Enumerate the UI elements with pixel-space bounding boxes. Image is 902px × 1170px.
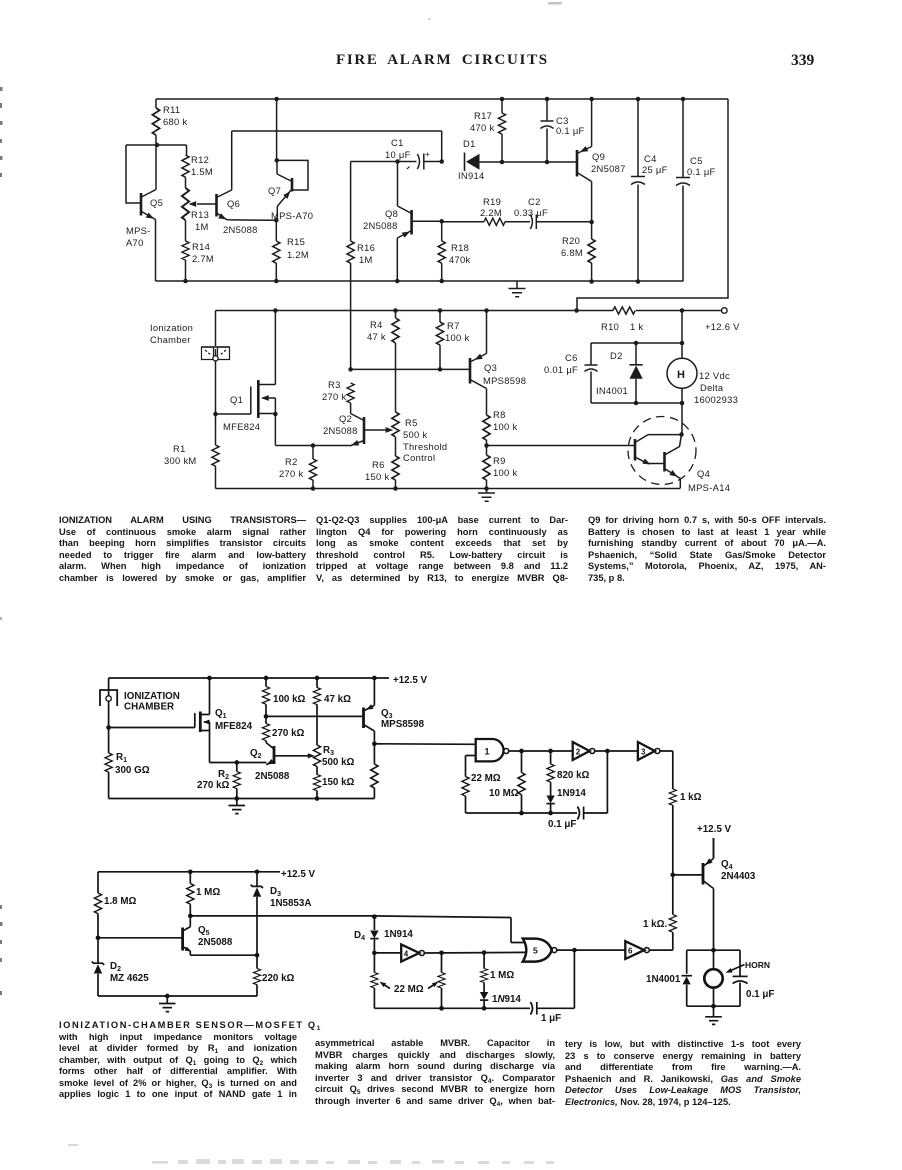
- wire Q1 source to Q2 emitter line: [275, 414, 349, 446]
- caption 1 column 1: [59, 515, 306, 584]
- svg-text:R19: R19: [483, 196, 501, 207]
- resistor R6: [392, 456, 399, 480]
- svg-text:C4: C4: [644, 153, 657, 164]
- svg-text:1M: 1M: [195, 221, 209, 232]
- svg-text:2N4403: 2N4403: [721, 871, 756, 882]
- NOR gate 5: [523, 939, 552, 962]
- resistor R2: [312, 446, 314, 460]
- darlington Q4 dashed circle: [628, 417, 696, 485]
- resistor R3: [347, 383, 354, 403]
- wire NAND output row: [509, 750, 573, 752]
- scan smudges bottom: [152, 1159, 554, 1164]
- MOSFET Q1: [216, 387, 251, 415]
- transistor Q2: [273, 746, 276, 764]
- wire bottom rail left section: [109, 798, 375, 800]
- wire Q4 base: [673, 874, 703, 876]
- svg-text:R5: R5: [405, 417, 418, 428]
- svg-text:Chamber: Chamber: [150, 334, 191, 345]
- svg-text:680 k: 680 k: [163, 116, 187, 127]
- svg-text:Q5: Q5: [198, 925, 210, 937]
- wire divider node to Q3 base: [266, 715, 364, 717]
- wire +12.6V supply line: [216, 310, 722, 312]
- svg-text:10 μF: 10 μF: [385, 149, 411, 160]
- svg-text:1 MΩ: 1 MΩ: [490, 970, 514, 981]
- wire comparator rail +12.5: [98, 871, 280, 873]
- svg-text:16002933: 16002933: [694, 394, 738, 405]
- svg-text:0.1 μF: 0.1 μF: [746, 989, 774, 1000]
- wire +12.5V to Q4 emitter: [713, 838, 715, 859]
- wire top rail: [156, 99, 728, 311]
- wire Q3/R8 node to Q4 base: [487, 445, 636, 447]
- svg-text:R4: R4: [370, 319, 383, 330]
- resistor R4: [395, 311, 397, 319]
- resistor R12: [186, 145, 188, 155]
- svg-text:0.1 μF: 0.1 μF: [548, 819, 576, 830]
- capacitor 0.1uF: [577, 807, 579, 820]
- svg-text:270 k: 270 k: [279, 468, 303, 479]
- svg-text:5: 5: [533, 946, 538, 956]
- transistor Q4 2N4403: [702, 863, 705, 885]
- ionization chamber 2: [100, 690, 117, 706]
- svg-text:Q2: Q2: [339, 413, 352, 424]
- wire threshold node to Q3 base: [351, 368, 470, 370]
- svg-text:10 MΩ: 10 MΩ: [489, 788, 519, 799]
- wire lower bottom rail: [216, 488, 681, 490]
- svg-text:A70: A70: [126, 237, 144, 248]
- svg-text:47 k: 47 k: [367, 331, 386, 342]
- inverter 3: [638, 742, 655, 760]
- svg-text:R11: R11: [163, 104, 180, 115]
- svg-text:100 k: 100 k: [445, 332, 469, 343]
- svg-text:D2: D2: [110, 961, 121, 973]
- arrow HORN label: [729, 965, 745, 972]
- svg-text:2N5088: 2N5088: [223, 224, 258, 235]
- inverter 6: [625, 941, 644, 959]
- resistor below Q3: [373, 744, 375, 764]
- svg-text:D4: D4: [354, 930, 365, 942]
- transistor Q7: [291, 178, 294, 192]
- MOSFET Q1: [109, 713, 195, 728]
- NAND input B feedback: [466, 756, 476, 777]
- capacitor C3: [541, 99, 554, 162]
- svg-text:270 kΩ: 270 kΩ: [272, 728, 305, 739]
- svg-text:R15: R15: [287, 236, 305, 247]
- wire C6/D2 bottom: [591, 402, 682, 404]
- resistor R7: [439, 311, 441, 323]
- wire horn feed from +12.6V: [681, 311, 683, 359]
- svg-text:2N5088: 2N5088: [323, 425, 358, 436]
- svg-text:22 MΩ: 22 MΩ: [394, 984, 424, 995]
- svg-text:1: 1: [485, 747, 490, 757]
- resistor 270k: [265, 716, 267, 723]
- svg-text:R14: R14: [192, 241, 210, 252]
- svg-text:300 GΩ: 300 GΩ: [115, 765, 150, 776]
- resistor R15: [275, 220, 277, 241]
- svg-text:0.1 μF: 0.1 μF: [556, 125, 585, 136]
- svg-text:2N5088: 2N5088: [255, 771, 290, 782]
- resistor 10M: [521, 751, 523, 773]
- resistor R20: [591, 222, 593, 239]
- svg-text:1N914: 1N914: [557, 788, 586, 799]
- transistor Q4b: [663, 452, 666, 472]
- wire Q8 base to R18 node: [412, 220, 442, 222]
- svg-text:Q1: Q1: [230, 394, 243, 405]
- svg-text:R12: R12: [191, 154, 209, 165]
- svg-text:MPS-: MPS-: [126, 225, 151, 236]
- svg-text:4: 4: [404, 950, 409, 959]
- svg-text:R10: R10: [601, 321, 619, 332]
- svg-text:100 k: 100 k: [493, 421, 517, 432]
- caption 2 column 2: [315, 1038, 555, 1107]
- svg-text:MPS-A14: MPS-A14: [688, 482, 730, 493]
- resistor R10: [613, 307, 635, 314]
- svg-text:R1: R1: [173, 443, 186, 454]
- svg-text:+12.5 V: +12.5 V: [697, 824, 732, 835]
- wire MVBR1 bottom: [466, 812, 578, 814]
- svg-text:Q6: Q6: [227, 198, 240, 209]
- wire Q3 collector to NAND 1: [374, 743, 475, 746]
- caption 2 column 3: [565, 1039, 801, 1108]
- wiper arrow Q2 base to R5: [364, 429, 387, 431]
- svg-text:CHAMBER: CHAMBER: [124, 702, 174, 713]
- transistor Q9: [576, 150, 579, 177]
- svg-text:470k: 470k: [449, 254, 471, 265]
- svg-text:R9: R9: [493, 455, 506, 466]
- svg-text:Q7: Q7: [268, 185, 281, 196]
- capacitor C2: [505, 221, 530, 223]
- svg-text:47 kΩ: 47 kΩ: [324, 694, 351, 705]
- svg-text:1 μF: 1 μF: [541, 1013, 561, 1024]
- svg-text:300 kM: 300 kM: [164, 455, 197, 466]
- svg-text:2N5087: 2N5087: [591, 163, 626, 174]
- ionization chamber symbol: [202, 347, 230, 360]
- svg-text:Threshold: Threshold: [403, 441, 447, 452]
- resistor 1k lower: [669, 915, 676, 933]
- svg-text:1.2M: 1.2M: [287, 249, 309, 260]
- svg-text:R7: R7: [447, 320, 460, 331]
- svg-text:150 k: 150 k: [365, 471, 389, 482]
- svg-text:2N5088: 2N5088: [363, 220, 398, 231]
- wiper arrow Q2 base to R3: [274, 755, 308, 757]
- ground below R2: [229, 799, 246, 814]
- svg-text:1N914: 1N914: [492, 994, 521, 1005]
- ground below horn: [705, 1006, 722, 1024]
- svg-text:+12.5 V: +12.5 V: [393, 675, 428, 686]
- svg-text:R8: R8: [493, 409, 506, 420]
- transistor Q3: [362, 708, 365, 729]
- svg-text:1 k: 1 k: [630, 321, 643, 332]
- zener D2 MZ4625: [97, 938, 99, 963]
- diode 1N914 MVBR1: [546, 796, 554, 804]
- resistor R1: [215, 414, 217, 445]
- capacitor 0.1uF horn: [733, 975, 748, 977]
- svg-text:D1: D1: [463, 138, 476, 149]
- resistor R11: [155, 99, 157, 108]
- wiper arrow from Q6 base to R13: [197, 203, 217, 205]
- transistor Q5: [140, 193, 143, 216]
- page header title: [336, 52, 549, 69]
- scan marks left edge: [0, 87, 3, 91]
- svg-text:1 kΩ.: 1 kΩ.: [643, 919, 667, 930]
- svg-text:R6: R6: [372, 459, 385, 470]
- svg-text:R20: R20: [562, 235, 580, 246]
- inverter 2: [573, 742, 590, 760]
- svg-text:MPS8598: MPS8598: [483, 375, 526, 386]
- svg-text:C6: C6: [565, 352, 578, 363]
- svg-text:R2: R2: [285, 456, 298, 467]
- arrow to right 22M: [428, 983, 437, 989]
- svg-text:1 MΩ: 1 MΩ: [196, 887, 220, 898]
- svg-text:+12.5 V: +12.5 V: [281, 869, 316, 880]
- transistor Q2: [363, 417, 366, 444]
- svg-text:150 kΩ: 150 kΩ: [322, 777, 355, 788]
- resistor R16: [350, 162, 352, 242]
- wire supply to ionization chamber: [215, 311, 217, 347]
- svg-text:+: +: [425, 150, 430, 159]
- diode D4 1N914: [373, 917, 375, 930]
- resistor R1: [108, 728, 110, 754]
- svg-text:0.01 μF: 0.01 μF: [544, 364, 578, 375]
- svg-text:1.5M: 1.5M: [191, 166, 213, 177]
- svg-text:2N5088: 2N5088: [198, 937, 233, 948]
- svg-text:MPS8598: MPS8598: [381, 719, 425, 730]
- svg-text:HORN: HORN: [745, 960, 770, 970]
- resistor 1M comparator: [189, 872, 191, 884]
- svg-text:Q4: Q4: [697, 468, 710, 479]
- ground below R9: [478, 489, 495, 502]
- svg-text:MZ 4625: MZ 4625: [110, 973, 149, 984]
- svg-text:MFE824: MFE824: [215, 721, 253, 732]
- svg-text:500 k: 500 k: [403, 429, 427, 440]
- node R11/R12/Q5 base loop: [126, 145, 187, 203]
- ground comparator: [159, 996, 176, 1012]
- diode D1: [464, 153, 466, 172]
- svg-text:100 kΩ: 100 kΩ: [273, 694, 306, 705]
- caption 1 column 2: [316, 515, 568, 584]
- svg-text:100 k: 100 k: [493, 467, 517, 478]
- svg-text:Q1: Q1: [215, 708, 227, 720]
- svg-text:2.7M: 2.7M: [192, 253, 214, 264]
- svg-text:R3: R3: [323, 745, 334, 757]
- resistor R2: [236, 763, 238, 772]
- wire Q1 source line: [210, 762, 267, 764]
- svg-text:1.8 MΩ: 1.8 MΩ: [104, 896, 137, 907]
- capacitor C4: [631, 99, 645, 282]
- resistor R9: [483, 455, 490, 480]
- wire Q6 collector to C1/D1 node: [232, 131, 442, 162]
- resistor R5 (pot): [392, 412, 399, 437]
- diode 1N4001 horn: [682, 975, 693, 977]
- ground at MVBR rail: [509, 282, 526, 297]
- horn motor H: [667, 358, 697, 388]
- svg-text:R18: R18: [451, 242, 469, 253]
- svg-text:3: 3: [641, 748, 646, 757]
- resistor R19: [442, 221, 484, 223]
- resistor 150k: [313, 775, 320, 791]
- resistor 22M left pot: [373, 953, 375, 973]
- svg-text:Q3: Q3: [484, 362, 497, 373]
- wire Q5 emitter row: [190, 954, 257, 956]
- capacitor C5: [676, 99, 690, 282]
- wire top rail to Q7 collector: [276, 99, 278, 160]
- svg-text:Delta: Delta: [700, 382, 724, 393]
- page number: [791, 52, 814, 70]
- wire Q7 base-collector loop: [277, 160, 308, 190]
- svg-text:R16: R16: [357, 242, 375, 253]
- resistor R18: [441, 221, 443, 241]
- resistor R13 (pot): [185, 177, 187, 188]
- svg-text:Ionization: Ionization: [150, 322, 193, 333]
- resistor R8: [483, 415, 490, 440]
- svg-text:6.8M: 6.8M: [561, 247, 583, 258]
- svg-text:1N914: 1N914: [384, 929, 413, 940]
- transistor Q6: [215, 194, 218, 217]
- svg-text:2.2M: 2.2M: [480, 207, 502, 218]
- resistor 47k: [316, 678, 318, 688]
- capacitor C6: [585, 343, 683, 403]
- svg-text:IONIZATION: IONIZATION: [124, 691, 180, 702]
- resistor 22M feedback: [462, 777, 469, 797]
- svg-text:270 kΩ: 270 kΩ: [197, 780, 230, 791]
- resistor 100k: [265, 678, 267, 687]
- wire comparator bottom rail: [98, 995, 257, 997]
- inverter 4: [374, 952, 401, 954]
- svg-text:R1: R1: [116, 752, 127, 764]
- svg-text:1 kΩ: 1 kΩ: [680, 792, 702, 803]
- caption 1 column 3: [588, 515, 826, 584]
- zener D3 1N5853A: [256, 872, 258, 886]
- svg-text:R3: R3: [328, 379, 341, 390]
- transistor Q3: [469, 358, 472, 384]
- svg-text:C5: C5: [690, 155, 703, 166]
- svg-text:C2: C2: [528, 196, 541, 207]
- transistor Q5: [181, 928, 184, 951]
- svg-text:500 kΩ: 500 kΩ: [322, 757, 355, 768]
- capacitor C1: [351, 161, 417, 163]
- horn box: [687, 950, 740, 1006]
- svg-text:Q9: Q9: [592, 151, 605, 162]
- wire NOR output: [557, 949, 626, 951]
- svg-text:R17: R17: [474, 110, 492, 121]
- svg-text:6: 6: [628, 947, 633, 956]
- transistor Q4a: [634, 439, 637, 461]
- svg-text:1N4001: 1N4001: [646, 974, 681, 985]
- resistor R17: [501, 99, 503, 113]
- svg-text:1M: 1M: [359, 254, 373, 265]
- svg-text:0.1 μF: 0.1 μF: [687, 166, 716, 177]
- svg-text:2: 2: [576, 748, 581, 757]
- svg-text:R13: R13: [191, 209, 209, 220]
- svg-text:220 kΩ: 220 kΩ: [262, 973, 295, 984]
- svg-text:Q4: Q4: [721, 859, 733, 871]
- scan smudge top: [548, 2, 562, 5]
- arrow to left 22M: [382, 983, 391, 989]
- svg-text:12 Vdc: 12 Vdc: [699, 370, 730, 381]
- resistor R14: [185, 220, 187, 241]
- svg-text:270 k: 270 k: [322, 391, 346, 402]
- resistor 1.8M: [97, 872, 99, 893]
- svg-text:MFE824: MFE824: [223, 421, 260, 432]
- svg-text:IN4001: IN4001: [596, 385, 628, 396]
- svg-text:Q5: Q5: [150, 197, 163, 208]
- svg-text:IN914: IN914: [458, 170, 485, 181]
- NAND gate 1: [476, 739, 504, 761]
- svg-text:1N5853A: 1N5853A: [270, 898, 311, 909]
- svg-text:820 kΩ: 820 kΩ: [557, 770, 590, 781]
- diode 1N914 MVBR2: [480, 992, 488, 1000]
- caption 2 column 1: [59, 1020, 297, 1101]
- svg-text:470 k: 470 k: [470, 122, 494, 133]
- svg-text:D2: D2: [610, 350, 623, 361]
- svg-text:Q8: Q8: [385, 208, 398, 219]
- svg-text:22 MΩ: 22 MΩ: [471, 773, 501, 784]
- wire Q5 collector to MVBR2: [190, 916, 525, 943]
- svg-text:C1: C1: [391, 137, 404, 148]
- resistor 1k upper: [669, 789, 676, 805]
- horn: [704, 969, 722, 987]
- svg-text:+12.6 V: +12.6 V: [705, 321, 740, 332]
- wire MVBR2 bottom: [374, 1007, 530, 1009]
- wire top rail +12.5: [109, 677, 389, 679]
- svg-text:Q2: Q2: [250, 748, 262, 760]
- resistor 820k: [550, 751, 552, 764]
- resistor R3 pot: [313, 745, 320, 767]
- terminal +12.6V: [722, 308, 728, 314]
- svg-text:25 μF: 25 μF: [642, 164, 668, 175]
- svg-text:H: H: [677, 369, 685, 381]
- svg-text:D3: D3: [270, 886, 281, 898]
- capacitor 1uF: [530, 1002, 532, 1015]
- resistor 220k: [256, 955, 258, 968]
- diode D2: [635, 343, 637, 365]
- transistor Q8: [410, 210, 413, 235]
- resistor 1M MVBR2: [483, 953, 485, 969]
- wire bottom rail of MVBR: [156, 280, 684, 282]
- svg-text:Control: Control: [403, 452, 435, 463]
- resistor 22M right pot: [441, 953, 443, 973]
